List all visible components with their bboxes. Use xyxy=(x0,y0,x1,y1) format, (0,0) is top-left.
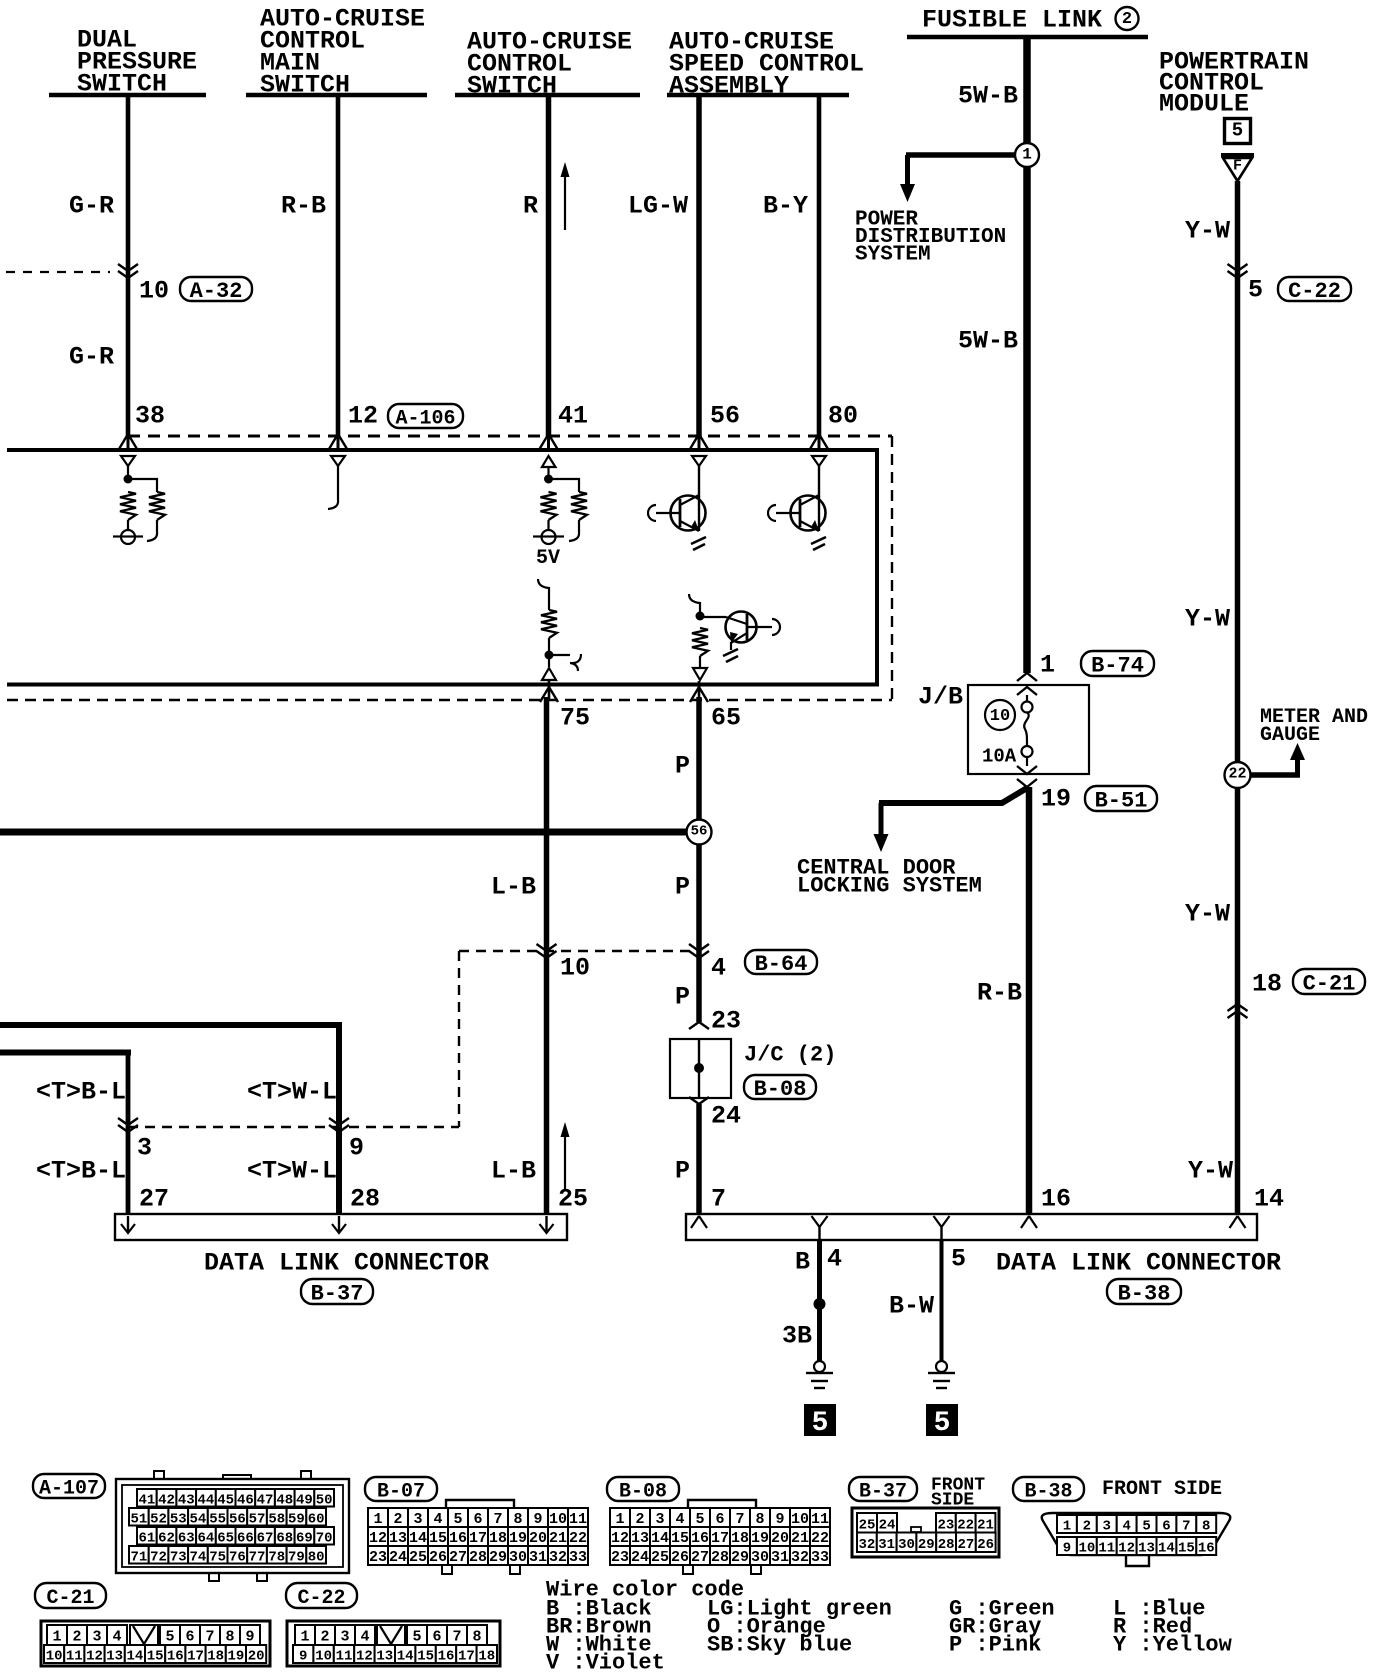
svg-text:5: 5 xyxy=(1232,119,1243,141)
svg-text:20: 20 xyxy=(248,1649,265,1665)
svg-text:28: 28 xyxy=(711,1549,729,1566)
svg-text:54: 54 xyxy=(190,1511,207,1527)
connector code A-32 xyxy=(180,277,252,301)
chevron into J/C xyxy=(689,1022,709,1029)
svg-text:R: R xyxy=(523,192,538,221)
svg-text:4: 4 xyxy=(1122,1519,1130,1535)
svg-text:41: 41 xyxy=(138,1492,155,1508)
svg-text:Y-W: Y-W xyxy=(1188,1157,1233,1186)
svg-text:5W-B: 5W-B xyxy=(958,82,1018,111)
svg-text:3B: 3B xyxy=(782,1322,812,1351)
svg-text:B-Y: B-Y xyxy=(763,192,808,221)
svg-text:10: 10 xyxy=(46,1649,63,1665)
data link connector B-38 box xyxy=(686,1214,1257,1240)
svg-text:55: 55 xyxy=(209,1511,226,1527)
wire P from ECU pin 65 down to DLC pin 7 xyxy=(696,697,702,1022)
svg-text:80: 80 xyxy=(828,402,858,431)
connector code A-107 xyxy=(33,1474,105,1498)
svg-text:30: 30 xyxy=(509,1549,527,1566)
connector B-37 pinout xyxy=(852,1508,999,1557)
svg-text:1: 1 xyxy=(1040,651,1055,680)
svg-text:A-107: A-107 xyxy=(39,1478,99,1501)
svg-text:B-37: B-37 xyxy=(311,1282,364,1307)
svg-text:C-22: C-22 xyxy=(297,1587,345,1610)
DLC pin fork at x=1237.5 xyxy=(1230,1216,1246,1228)
wire 5W-B from fusible link xyxy=(1023,39,1031,144)
svg-text:25: 25 xyxy=(651,1549,669,1566)
resistor xyxy=(120,492,136,520)
svg-text:15: 15 xyxy=(417,1649,434,1665)
svg-text:20: 20 xyxy=(529,1530,547,1547)
ECU solid box xyxy=(7,450,877,685)
svg-text:18: 18 xyxy=(207,1649,224,1665)
connector code B-07 xyxy=(365,1477,437,1501)
svg-text:2: 2 xyxy=(72,1629,81,1646)
ECU numbered box 5 xyxy=(1225,119,1251,144)
svg-text:27: 27 xyxy=(449,1549,467,1566)
svg-text:<T>W-L: <T>W-L xyxy=(247,1078,337,1107)
wire R-B from J/B down to DLC pin 16 xyxy=(1026,787,1033,1214)
DLC pin fork at x=1029 xyxy=(1021,1216,1037,1228)
svg-text:8: 8 xyxy=(1202,1519,1210,1535)
connector code C-21 (bottom) xyxy=(35,1583,106,1608)
ground wire B-W (pin 5) xyxy=(940,1240,944,1361)
switch hook xyxy=(328,500,338,509)
svg-text:50: 50 xyxy=(316,1492,333,1508)
svg-text:1: 1 xyxy=(615,1511,624,1528)
svg-text:25: 25 xyxy=(859,1517,876,1533)
svg-text:30: 30 xyxy=(898,1537,915,1553)
svg-text:3: 3 xyxy=(137,1134,152,1163)
svg-text:25: 25 xyxy=(409,1549,427,1566)
connector code B-37 xyxy=(301,1279,373,1304)
svg-text:30: 30 xyxy=(751,1549,769,1566)
DLC pin arrow at x=546.5 xyxy=(545,1216,547,1231)
svg-text:11: 11 xyxy=(569,1511,587,1528)
wire Y-W from PCM triangle F xyxy=(1235,181,1241,1214)
wire entry fork pin at x=128 xyxy=(127,437,130,448)
svg-text:8: 8 xyxy=(225,1629,234,1646)
wire R from auto-cruise control switch (pin 41) xyxy=(546,95,552,437)
svg-text:4: 4 xyxy=(360,1629,369,1646)
svg-text:70: 70 xyxy=(316,1530,333,1546)
svg-text:72: 72 xyxy=(150,1549,167,1565)
svg-text:14: 14 xyxy=(397,1649,414,1665)
svg-text:19: 19 xyxy=(227,1649,244,1665)
DLC pin fork at x=699 xyxy=(691,1216,707,1228)
svg-text:22: 22 xyxy=(811,1530,829,1547)
svg-text:10: 10 xyxy=(139,277,169,306)
svg-text:13: 13 xyxy=(376,1649,393,1665)
svg-text:Y-W: Y-W xyxy=(1185,605,1230,634)
svg-text:LOCKING SYSTEM: LOCKING SYSTEM xyxy=(797,873,982,898)
svg-text:27: 27 xyxy=(691,1549,709,1566)
svg-text:16: 16 xyxy=(1041,1185,1071,1214)
svg-text:23: 23 xyxy=(611,1549,629,1566)
svg-text:GAUGE: GAUGE xyxy=(1260,724,1320,747)
svg-text:31: 31 xyxy=(771,1549,789,1566)
svg-text:5: 5 xyxy=(812,1408,829,1439)
connector code B-37 (bottom) xyxy=(849,1477,917,1501)
svg-text:25: 25 xyxy=(558,1185,588,1214)
svg-text:32: 32 xyxy=(549,1549,567,1566)
svg-text:17: 17 xyxy=(711,1530,729,1547)
svg-text:6: 6 xyxy=(1162,1519,1170,1535)
switch hook xyxy=(147,532,157,541)
connector chevrons pin 10 on L-B wire xyxy=(537,944,557,951)
svg-text:4: 4 xyxy=(711,954,726,983)
thick junction wire to circle 56 xyxy=(0,829,689,836)
connector code B-51 xyxy=(1085,786,1157,811)
svg-text:67: 67 xyxy=(257,1530,274,1546)
wire B-Y (pin 80) xyxy=(817,95,822,437)
svg-text:24: 24 xyxy=(711,1102,741,1131)
svg-text:22: 22 xyxy=(1228,766,1246,783)
svg-text:45: 45 xyxy=(217,1492,234,1508)
svg-text:9: 9 xyxy=(1063,1541,1071,1557)
svg-text:3: 3 xyxy=(92,1629,101,1646)
svg-text:29: 29 xyxy=(489,1549,507,1566)
branch to meter and gauge xyxy=(1250,772,1300,778)
svg-text:J/B: J/B xyxy=(918,683,963,712)
svg-text:A-106: A-106 xyxy=(395,408,455,431)
internal circuit: main switch input (pin 12) xyxy=(331,456,345,466)
svg-text:7: 7 xyxy=(205,1629,214,1646)
svg-text:62: 62 xyxy=(158,1530,175,1546)
svg-text:B-08: B-08 xyxy=(754,1077,807,1102)
svg-text:DATA LINK CONNECTOR: DATA LINK CONNECTOR xyxy=(996,1249,1281,1278)
svg-text:20: 20 xyxy=(771,1530,789,1547)
svg-text:B-07: B-07 xyxy=(377,1481,425,1504)
connector C-22 pinout xyxy=(287,1621,500,1666)
svg-text:69: 69 xyxy=(296,1530,313,1546)
svg-text:59: 59 xyxy=(288,1511,305,1527)
svg-text:7: 7 xyxy=(452,1629,461,1646)
svg-text:18: 18 xyxy=(731,1530,749,1547)
svg-text:B: B xyxy=(795,1248,810,1277)
junction block J/B box xyxy=(968,685,1089,774)
svg-text:21: 21 xyxy=(977,1517,994,1533)
svg-text:28: 28 xyxy=(938,1537,955,1553)
svg-text:61: 61 xyxy=(138,1530,155,1546)
svg-text:14: 14 xyxy=(1158,1541,1175,1557)
svg-text:Y-W: Y-W xyxy=(1185,217,1230,246)
svg-text:32: 32 xyxy=(791,1549,809,1566)
svg-text:C-22: C-22 xyxy=(1288,279,1341,304)
svg-text:L-B: L-B xyxy=(491,873,536,902)
svg-text:12: 12 xyxy=(348,402,378,431)
svg-text:75: 75 xyxy=(560,704,590,733)
svg-text:5: 5 xyxy=(412,1629,421,1646)
internal circuit: dual pressure switch input (pin 38) xyxy=(121,456,135,466)
svg-text:57: 57 xyxy=(249,1511,266,1527)
svg-text:12: 12 xyxy=(356,1649,373,1665)
svg-text:14: 14 xyxy=(1254,1185,1284,1214)
svg-text:51: 51 xyxy=(130,1511,147,1527)
svg-text:24: 24 xyxy=(389,1549,407,1566)
svg-text:1: 1 xyxy=(300,1629,309,1646)
svg-text:J/C (2): J/C (2) xyxy=(744,1042,836,1067)
svg-text:12: 12 xyxy=(369,1530,387,1547)
dashed harness: B-64 group xyxy=(459,950,699,952)
svg-text:5: 5 xyxy=(1248,276,1263,305)
svg-text:5: 5 xyxy=(951,1245,966,1274)
connector code C-21 xyxy=(1293,969,1365,994)
svg-text:73: 73 xyxy=(170,1549,187,1565)
svg-text:15: 15 xyxy=(671,1530,689,1547)
svg-text:15: 15 xyxy=(429,1530,447,1547)
svg-text:71: 71 xyxy=(130,1549,147,1565)
svg-text:1: 1 xyxy=(373,1511,382,1528)
DLC pin arrow at x=339 xyxy=(338,1216,340,1231)
svg-text:2: 2 xyxy=(1122,10,1132,29)
svg-text:41: 41 xyxy=(558,402,588,431)
svg-text:12: 12 xyxy=(86,1649,103,1665)
wire L-B from ECU pin 75 down to DLC pin 25 xyxy=(544,697,550,1214)
svg-text:Y-W: Y-W xyxy=(1185,900,1230,929)
pin 65 exit fork xyxy=(698,681,701,700)
data link connector B-37 box xyxy=(115,1214,567,1240)
svg-text:23: 23 xyxy=(937,1517,954,1533)
svg-text:G-R: G-R xyxy=(69,343,114,372)
svg-text:31: 31 xyxy=(529,1549,547,1566)
ground point 5 xyxy=(926,1404,958,1436)
svg-text:5: 5 xyxy=(695,1511,704,1528)
svg-text:3: 3 xyxy=(655,1511,664,1528)
svg-text:1: 1 xyxy=(1063,1519,1071,1535)
svg-text:60: 60 xyxy=(308,1511,325,1527)
svg-text:26: 26 xyxy=(671,1549,689,1566)
ECU dashed harness box top xyxy=(128,435,892,438)
svg-text:F: F xyxy=(1233,158,1242,175)
svg-text:24: 24 xyxy=(631,1549,649,1566)
svg-text:75: 75 xyxy=(209,1549,226,1565)
svg-text:3: 3 xyxy=(413,1511,422,1528)
svg-text:7: 7 xyxy=(1182,1519,1190,1535)
svg-text:16: 16 xyxy=(691,1530,709,1547)
connector code C-22 (bottom) xyxy=(286,1583,357,1608)
svg-text:9: 9 xyxy=(533,1511,542,1528)
svg-text:53: 53 xyxy=(170,1511,187,1527)
svg-text:21: 21 xyxy=(549,1530,567,1547)
svg-text:2: 2 xyxy=(393,1511,402,1528)
svg-text:3: 3 xyxy=(340,1629,349,1646)
ground xyxy=(723,649,738,662)
svg-text:C-21: C-21 xyxy=(46,1587,94,1610)
svg-text:65: 65 xyxy=(217,1530,234,1546)
svg-text:Y :Yellow: Y :Yellow xyxy=(1113,1632,1233,1657)
svg-text:56: 56 xyxy=(691,823,708,839)
ground point 5 xyxy=(804,1404,836,1436)
svg-text:19: 19 xyxy=(509,1530,527,1547)
svg-text:26: 26 xyxy=(429,1549,447,1566)
svg-text:6: 6 xyxy=(715,1511,724,1528)
junction connector J/C(2) box xyxy=(670,1039,731,1098)
resistor xyxy=(541,610,557,638)
svg-text:33: 33 xyxy=(569,1549,587,1566)
svg-text:FRONT SIDE: FRONT SIDE xyxy=(1102,1478,1222,1501)
switch hook xyxy=(569,532,579,541)
junction circle 22 xyxy=(1225,762,1251,788)
chevron pin 1 (B-74) xyxy=(1017,673,1037,681)
triangle F connector symbol xyxy=(1221,153,1254,157)
svg-text:58: 58 xyxy=(268,1511,285,1527)
svg-text:14: 14 xyxy=(651,1530,669,1547)
svg-text:42: 42 xyxy=(158,1492,175,1508)
ground xyxy=(811,537,826,550)
svg-text:10: 10 xyxy=(791,1511,809,1528)
wire entry fork pin at x=699 xyxy=(698,437,701,448)
svg-text:7: 7 xyxy=(711,1185,726,1214)
svg-text:DATA LINK CONNECTOR: DATA LINK CONNECTOR xyxy=(204,1249,489,1278)
svg-text:17: 17 xyxy=(187,1649,204,1665)
DLC pin arrow at x=128 xyxy=(127,1216,129,1231)
5V reference circle xyxy=(542,530,556,544)
thick wire (T)W-L from left xyxy=(0,1022,342,1028)
svg-text:52: 52 xyxy=(150,1511,167,1527)
svg-text:R-B: R-B xyxy=(281,192,326,221)
svg-text:B-38: B-38 xyxy=(1024,1481,1072,1504)
internal circuit: pin 75 pull-up resistor and switch xyxy=(538,579,549,588)
svg-text:56: 56 xyxy=(710,402,740,431)
svg-text:11: 11 xyxy=(811,1511,829,1528)
svg-text:64: 64 xyxy=(198,1530,215,1546)
svg-text:1: 1 xyxy=(1022,146,1032,164)
svg-text:5V: 5V xyxy=(536,547,560,570)
svg-text:4: 4 xyxy=(675,1511,684,1528)
svg-text:5: 5 xyxy=(453,1511,462,1528)
transistor Q1 (pin 56 driver) xyxy=(692,456,706,466)
svg-text:13: 13 xyxy=(1138,1541,1155,1557)
pin 75 exit fork xyxy=(548,681,551,700)
connector code B-38 (bottom) xyxy=(1013,1477,1084,1501)
svg-text:B-51: B-51 xyxy=(1095,789,1148,814)
svg-text:49: 49 xyxy=(296,1492,313,1508)
svg-text:14: 14 xyxy=(409,1530,427,1547)
svg-text:4: 4 xyxy=(433,1511,442,1528)
svg-text:SB:Sky blue: SB:Sky blue xyxy=(707,1632,852,1657)
svg-text:4: 4 xyxy=(827,1245,842,1274)
ground wire B (pin 4) xyxy=(817,1240,822,1361)
connector code A-106 xyxy=(388,404,463,428)
wire LG-W (pin 56) xyxy=(696,95,702,437)
connector A-107 pinout xyxy=(154,1471,164,1479)
svg-text:77: 77 xyxy=(249,1549,266,1565)
thick wire (T)B-L from left xyxy=(0,1050,131,1056)
resistor xyxy=(571,492,587,520)
svg-text:P: P xyxy=(675,983,690,1012)
svg-text:9: 9 xyxy=(299,1649,307,1665)
svg-text:LG-W: LG-W xyxy=(628,192,688,221)
transistor Q3 xyxy=(726,612,757,643)
connector C-22 chevrons on wire Y-W xyxy=(1228,264,1248,271)
svg-text:38: 38 xyxy=(135,402,165,431)
branch to central door locking system xyxy=(879,788,1027,803)
svg-text:5: 5 xyxy=(934,1408,951,1439)
svg-text:23: 23 xyxy=(711,1007,741,1036)
connector code B-08 xyxy=(607,1477,679,1501)
svg-text:19: 19 xyxy=(1041,785,1071,814)
svg-text:4: 4 xyxy=(112,1629,121,1646)
connector code B-64 xyxy=(745,950,817,974)
svg-text:28: 28 xyxy=(469,1549,487,1566)
svg-text:B-08: B-08 xyxy=(619,1481,667,1504)
svg-text:8: 8 xyxy=(513,1511,522,1528)
svg-text:10: 10 xyxy=(549,1511,567,1528)
svg-text:10: 10 xyxy=(1078,1541,1095,1557)
connector B-08 pinout xyxy=(688,1500,756,1508)
junction circle 56 xyxy=(687,820,712,845)
svg-text:12: 12 xyxy=(611,1530,629,1547)
svg-text:6: 6 xyxy=(432,1629,441,1646)
svg-text:<T>B-L: <T>B-L xyxy=(36,1078,126,1107)
svg-text:16: 16 xyxy=(167,1649,184,1665)
svg-text:15: 15 xyxy=(1178,1541,1195,1557)
svg-text:22: 22 xyxy=(569,1530,587,1547)
svg-text:13: 13 xyxy=(106,1649,123,1665)
svg-text:<T>B-L: <T>B-L xyxy=(36,1157,126,1186)
ground xyxy=(691,537,706,550)
svg-text:17: 17 xyxy=(458,1649,475,1665)
svg-text:1: 1 xyxy=(52,1629,61,1646)
flow arrow up beside wire R xyxy=(564,177,566,230)
svg-text:9: 9 xyxy=(245,1629,254,1646)
connector B-07 pinout xyxy=(446,1500,514,1508)
svg-text:FUSIBLE LINK: FUSIBLE LINK xyxy=(922,6,1102,35)
resistor xyxy=(692,628,708,656)
connector chevrons pin 4 (B-64) on P wire xyxy=(689,944,709,951)
svg-text:B-38: B-38 xyxy=(1118,1282,1171,1307)
svg-text:65: 65 xyxy=(711,704,741,733)
branch wire to power distribution system xyxy=(906,152,1016,158)
svg-text:18: 18 xyxy=(478,1649,495,1665)
svg-text:29: 29 xyxy=(918,1537,935,1553)
switch hook xyxy=(570,654,581,671)
svg-text:L-B: L-B xyxy=(491,1157,536,1186)
ECU dashed box bottom xyxy=(7,699,892,701)
svg-text:13: 13 xyxy=(389,1530,407,1547)
svg-text:C-21: C-21 xyxy=(1303,972,1356,997)
connector A-32 chevrons on wire G-R xyxy=(118,264,138,271)
svg-text:R-B: R-B xyxy=(977,979,1022,1008)
ground symbol xyxy=(936,1361,947,1372)
svg-text:26: 26 xyxy=(977,1537,994,1553)
svg-text:33: 33 xyxy=(811,1549,829,1566)
svg-text:66: 66 xyxy=(237,1530,254,1546)
svg-text:G-R: G-R xyxy=(69,192,114,221)
svg-text:44: 44 xyxy=(198,1492,215,1508)
svg-text:V :Violet: V :Violet xyxy=(546,1650,665,1675)
svg-text:5: 5 xyxy=(1142,1519,1150,1535)
svg-text:10: 10 xyxy=(560,954,590,983)
svg-text:SYSTEM: SYSTEM xyxy=(855,244,931,267)
svg-text:17: 17 xyxy=(469,1530,487,1547)
svg-text:14: 14 xyxy=(126,1649,143,1665)
svg-text:13: 13 xyxy=(631,1530,649,1547)
svg-text:2: 2 xyxy=(1083,1519,1091,1535)
svg-text:9: 9 xyxy=(775,1511,784,1528)
svg-text:46: 46 xyxy=(237,1492,254,1508)
svg-text:19: 19 xyxy=(751,1530,769,1547)
svg-text:P: P xyxy=(675,873,690,902)
chevron out of J/C xyxy=(689,1097,709,1104)
svg-text:P: P xyxy=(675,1157,690,1186)
svg-text:78: 78 xyxy=(268,1549,285,1565)
connector C-21 pinout xyxy=(41,1621,270,1666)
svg-text:76: 76 xyxy=(229,1549,246,1565)
wire G-R from dual pressure switch (pin 38) xyxy=(126,95,131,437)
svg-text:16: 16 xyxy=(449,1530,467,1547)
